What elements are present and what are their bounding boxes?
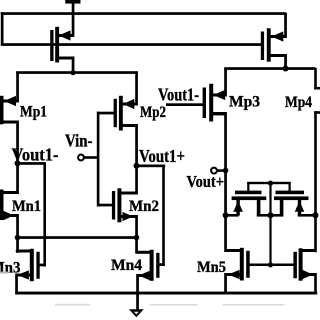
wire Mp1 drain down to Vout1- node and Mn1 drain [16, 121, 19, 195]
wire tail rail [16, 236, 138, 239]
transistor Mn6 channel bar [299, 248, 303, 280]
faint cropped-text remnant bottom 3 [223, 304, 285, 306]
wire top-right PMOS source lead [269, 35, 286, 38]
wire capacitor-FET left inner lead [257, 200, 261, 216]
faint cropped-text remnant left [0, 272, 8, 274]
transistor Mn5 channel bar [240, 248, 244, 281]
wire Mp3 source lead [212, 94, 226, 97]
arrow Mp3 source (points left) [213, 90, 225, 100]
transistor top-left PMOS channel bar [55, 27, 59, 63]
wire gate bias rail (second horizontal) [1, 43, 262, 46]
wire Mp4 source stub exit right [314, 87, 320, 90]
wire Mn3 source lead [16, 274, 31, 277]
wire Mn3 gate lead [40, 264, 47, 267]
ground symbol triangle [129, 309, 144, 317]
wire top rail VDD (horizontal) [1, 12, 287, 15]
transistor Mp2 gate bar [114, 99, 117, 127]
svg-text:Mp4: Mp4 [285, 94, 312, 111]
wire Mp4 drain stub entry right [314, 111, 320, 114]
wire Mn4 drain lead [137, 251, 151, 254]
wire Mn4 source lead [137, 274, 150, 277]
transistor Mn4 gate bar [156, 253, 159, 278]
wire Vout1+ down to Mn4 gate [162, 165, 165, 267]
arrow Mn6 source (points right) [303, 270, 313, 279]
svg-text:Vout+: Vout+ [187, 172, 225, 191]
transistor Mn3 gate bar [36, 252, 39, 279]
wire Mp1 source up [16, 72, 19, 103]
arrow Mp2 source (points left) [123, 99, 135, 109]
arrow Mp1 source (points left) [4, 96, 16, 106]
wire Mp3 drain down to Mn5 drain (Vout+ vertical) [224, 112, 227, 252]
wire Mn6 source lead [303, 273, 316, 276]
wire Vin- stub [84, 156, 98, 159]
svg-text:Mp1: Mp1 [20, 103, 47, 120]
wire top rail right end down to top-right PMOS source [284, 13, 287, 38]
wire Mn5 drain lead [225, 249, 240, 252]
transistor Mn3 channel bar [30, 249, 34, 281]
arrow capacitor-FET right (points up) [295, 201, 305, 212]
wire Mp4 source stub (top right, clipped) [314, 68, 317, 90]
arrow Mn3 source (points left) [17, 270, 29, 279]
wire Vout1- down to Mn3 gate [43, 163, 46, 267]
svg-text:Vout1+: Vout1+ [139, 146, 185, 166]
wire Mn4 gate lead [159, 263, 165, 266]
wire first-stage supply link (y=72.5) [16, 71, 138, 74]
node junction dot bus center [268, 212, 274, 218]
transistor top-right PMOS channel bar [267, 28, 271, 61]
node junction dot Vout+ tap [223, 168, 229, 174]
transistor Mn5 gate bar [246, 251, 250, 278]
wire Mn3 drain lead [16, 250, 30, 253]
arrow Mn5 source (points left) [228, 270, 240, 279]
arrow Mn2 source (points right) [123, 212, 134, 221]
svg-text:Mn2: Mn2 [129, 198, 159, 215]
wire Mn3 source down to ground rail [15, 274, 18, 294]
wire Mp2 source lead [121, 103, 137, 106]
wire Mn5 source down to ground rail [224, 273, 227, 293]
capacitor-FET left channel bar [232, 196, 267, 200]
wire capacitor-FET right outer lead [298, 200, 301, 216]
wire Mp3 gate lead [166, 103, 204, 106]
svg-text:Mn1: Mn1 [12, 198, 41, 215]
wire left edge connector between rails [1, 12, 4, 45]
arrow top-left PMOS source (points left) [59, 30, 71, 40]
wire Mn5 source lead [225, 273, 240, 276]
wire Mp2 drain lead [121, 124, 138, 127]
svg-text:Vout1-: Vout1- [12, 144, 59, 164]
arrow top-right PMOS source (points left) [272, 31, 284, 41]
transistor Mn1 channel bar (clipped at left edge) [0, 190, 4, 221]
transistor Mn4 channel bar [150, 250, 154, 281]
wire capacitor-FET left gate tap [247, 182, 249, 192]
wire Vout1+ link right [135, 165, 165, 168]
wire Mn6 source down to ground rail [314, 273, 317, 293]
wire bus segment between inner leads [257, 214, 284, 217]
wire Mp3 drain lead [212, 112, 226, 115]
capacitor-FET right gate bar [276, 191, 305, 195]
transistor top-right PMOS gate bar [261, 32, 264, 61]
svg-text:Vout1-: Vout1- [158, 85, 199, 105]
svg-text:Mn3: Mn3 [0, 260, 21, 277]
svg-text:Vin-: Vin- [65, 130, 93, 150]
wire top-left PMOS drain lead [57, 57, 74, 60]
transistor Mn2 gate bar [112, 191, 115, 220]
wire Mn1 source down to tail node [16, 214, 19, 253]
wire Mp1 drain lead [3, 121, 18, 124]
wire top-left PMOS source lead [57, 34, 74, 37]
VDD supply bar [65, 0, 80, 4]
faint cropped-text remnant bottom 1 [55, 304, 90, 306]
node junction dot on gate rail [268, 262, 273, 267]
wire second-stage supply link (y=68.5) [224, 67, 316, 70]
wire gate bridge of capacitor FETs [247, 182, 291, 184]
wire bus segment right outer lead to right vertical [298, 214, 317, 217]
arrow Mn1 source (points right) [4, 211, 14, 220]
wire Mp2 drain down to Vout1+ node and Mn2 drain [135, 124, 138, 195]
wire Mp1 source lead [3, 100, 18, 103]
svg-text:Mn5: Mn5 [197, 259, 226, 276]
wire capacitor-FET right gate tap [289, 182, 291, 192]
wire top-left PMOS drain down [72, 57, 75, 75]
node junction dot on bridge [268, 181, 273, 186]
wire ground stem [136, 292, 139, 311]
wire Mn1 source lead [3, 214, 18, 217]
wire top-right PMOS drain down to node [284, 54, 287, 70]
node Vout1- junction dot [15, 160, 21, 166]
wire Mn4 source down to ground rail [136, 274, 139, 294]
transistor Mp1 channel bar (clipped at left edge) [0, 96, 4, 125]
wire Mp3 source up to supply link [224, 68, 227, 97]
wire Mp4 drain down to Mn6 drain (right edge vertical) [314, 111, 317, 252]
svg-text:Mp3: Mp3 [229, 94, 260, 111]
wire Mn6 drain lead [303, 249, 317, 252]
capacitor-FET right channel bar [274, 196, 309, 200]
terminal Vout+ open circle [211, 168, 217, 174]
wire Mp2 gate lead [97, 112, 114, 115]
wire Vout1- link right [16, 162, 46, 165]
capacitor-FET left gate bar [235, 191, 262, 195]
wire Mn1 drain lead [3, 191, 18, 194]
transistor Mn6 gate bar [293, 252, 297, 278]
wire Mp2 source up [135, 72, 138, 106]
wire capacitor-FET right inner lead [280, 200, 284, 216]
wire Mn2 drain lead [120, 192, 136, 195]
node Vout1+ junction dot [134, 163, 140, 169]
transistor Mp3 channel bar [209, 84, 213, 122]
wire bus segment Vout+ to left outer lead [224, 214, 239, 217]
transistor Mp3 gate bar [203, 88, 206, 119]
wire Mn2 gate lead [97, 204, 113, 207]
faint cropped-text remnant bottom 2 [150, 304, 198, 306]
wire top-right PMOS drain lead [269, 54, 286, 57]
wire Vout+ stub [218, 169, 227, 172]
wire Mn2 source lead [120, 215, 136, 218]
node tail junction dot left [15, 235, 21, 241]
wire Vin- vertical to Mp2/Mn2 gates [97, 112, 100, 207]
node junction dot at (73,72.5) [70, 70, 75, 75]
node tail junction dot right [134, 235, 140, 241]
transistor Mp2 channel bar [119, 96, 123, 131]
transistor top-left PMOS gate bar [50, 30, 53, 61]
node junction dot bus right on output vertical [313, 212, 319, 218]
transistor Mn2 channel bar [117, 188, 121, 222]
arrow Mn4 source (points left) [139, 271, 150, 280]
wire Mn2 source down to tail node [135, 215, 138, 254]
node junction dot bus left on Vout+ vertical [223, 212, 229, 218]
wire ground rail [15, 292, 317, 295]
arrow capacitor-FET left (points up) [233, 201, 243, 212]
svg-text:Mp2: Mp2 [140, 104, 166, 121]
wire VDD stem down through top rail to PMOS source [72, 3, 75, 37]
wire capacitor-FET left outer lead [236, 200, 239, 216]
node junction dot at (285.5,68.5) [283, 66, 289, 72]
wire common-mode vertical down to Mn5/Mn6 gates [269, 182, 271, 266]
wire Mn5/Mn6 gate rail [249, 264, 295, 267]
svg-text:Mn4: Mn4 [111, 257, 142, 274]
terminal Vin- open circle [78, 155, 84, 161]
